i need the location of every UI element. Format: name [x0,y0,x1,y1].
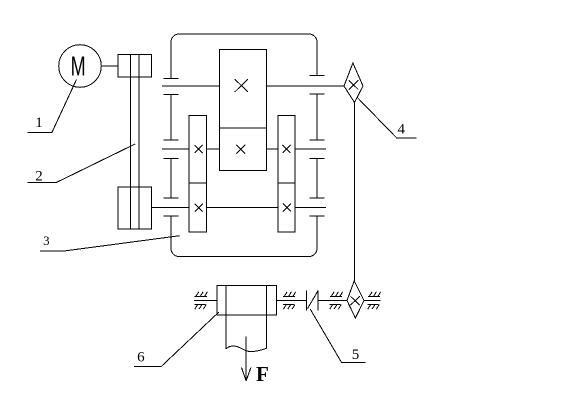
svg-text:M: M [71,51,86,82]
svg-text:2: 2 [35,169,43,185]
svg-text:6: 6 [137,350,145,366]
svg-text:4: 4 [397,121,405,137]
svg-text:5: 5 [352,347,360,363]
svg-text:3: 3 [43,233,50,248]
svg-text:F: F [256,362,269,386]
svg-text:1: 1 [35,115,43,131]
